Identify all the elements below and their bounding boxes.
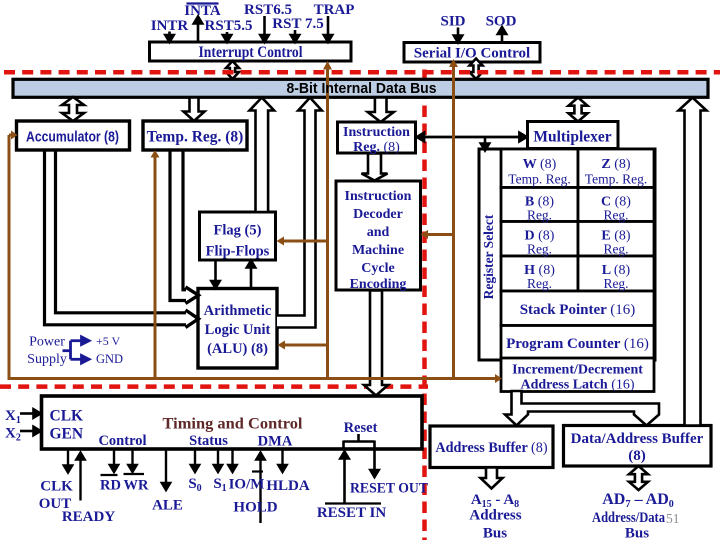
Program Counter box (501, 326, 654, 360)
arrowhead Accumulator channel into ALU (186, 310, 199, 328)
arrow Decoder to Timing and Control (364, 291, 388, 396)
red dashed highlight line vertical (422, 70, 427, 540)
wire HLDA (278, 450, 286, 473)
svg-text:Reg.: Reg. (527, 242, 552, 257)
svg-text:Multiplexer: Multiplexer (533, 129, 611, 146)
arrow Data/Address Buffer to bus (679, 98, 707, 426)
svg-text:Address Latch (16): Address Latch (16) (520, 378, 634, 393)
register cell H (501, 256, 578, 291)
register cell D (501, 222, 578, 257)
svg-text:ALE: ALE (152, 498, 183, 514)
Stack Pointer box (501, 291, 654, 326)
Flag flip-flops box (200, 212, 276, 260)
8-bit internal data bus bar (13, 79, 708, 97)
double arrow bus to Accumulator (62, 97, 84, 121)
arrow Address Buffer to address bus (481, 468, 503, 489)
svg-text:INTR: INTR (151, 18, 189, 34)
arrow bus to Instruction Reg (368, 98, 394, 123)
svg-text:Z (8): Z (8) (601, 157, 631, 172)
Instruction Decoder box (336, 181, 421, 290)
wire Temp Reg to ALU (outer) (170, 151, 186, 301)
Temp Reg box (143, 121, 247, 150)
svg-text:X1: X1 (5, 408, 21, 426)
wire X2 input (20, 427, 41, 435)
double arrow Interrupt Control to bus (226, 61, 239, 79)
svg-text:Machine: Machine (352, 243, 404, 258)
INTA overline (187, 2, 219, 4)
svg-text:(8): (8) (628, 448, 646, 464)
svg-text:Flag (5): Flag (5) (214, 223, 262, 239)
wire ALE (162, 450, 170, 491)
svg-text:S1: S1 (213, 476, 226, 494)
Instruction Reg box (338, 122, 416, 153)
svg-text:RESET OUT: RESET OUT (350, 481, 428, 497)
svg-text:Reg.: Reg. (603, 242, 628, 257)
brown wire left vertical to Accumulator (9, 131, 18, 379)
wire RST5.5 arrow (223, 32, 231, 42)
svg-text:Serial I/O Control: Serial I/O Control (414, 46, 530, 62)
svg-text:and: and (367, 225, 390, 240)
Accumulator box (17, 121, 130, 150)
register cell W (501, 149, 578, 188)
arrow bus to Temp Reg (184, 98, 205, 122)
svg-text:+5 V: +5 V (96, 334, 121, 348)
brown wire vertical to Serial I/O Control (449, 59, 458, 379)
svg-text:Register Select: Register Select (481, 214, 496, 299)
svg-text:Arithmetic: Arithmetic (204, 303, 272, 319)
svg-text:Temp. Reg.: Temp. Reg. (585, 172, 647, 187)
arrow Flag flip-flops to bus (250, 98, 275, 213)
RESET IN overline (325, 502, 381, 504)
brown wire branch to Flag flip-flops (277, 237, 328, 246)
power supply bracket (63, 337, 90, 363)
brown wire branch to Instruction Decoder (421, 230, 454, 239)
wire RST6.5 arrow (260, 16, 268, 42)
wire RD (110, 450, 118, 473)
red dashed highlight line bottom (0, 384, 428, 389)
wire register select branch down (481, 137, 489, 151)
svg-text:Instruction: Instruction (343, 125, 410, 140)
Address Buffer box (430, 426, 553, 468)
double arrow bus to Multiplexer (569, 98, 588, 122)
wire S1 (214, 450, 222, 473)
red dashed highlight line top (4, 70, 720, 75)
svg-text:Status: Status (189, 433, 228, 449)
register cell C (578, 188, 654, 222)
register cell L (578, 256, 654, 291)
register cell B (501, 188, 578, 222)
svg-text:TRAP: TRAP (314, 2, 355, 18)
svg-text:HLDA: HLDA (266, 478, 310, 494)
Register select outer box (479, 149, 655, 360)
wire TRAP arrow (324, 16, 332, 42)
Increment/Decrement Address Latch box (501, 358, 654, 392)
svg-text:Reg.: Reg. (527, 276, 552, 291)
svg-text:Control: Control (98, 433, 146, 449)
wire IO/M (228, 450, 236, 473)
svg-text:WR: WR (124, 478, 150, 494)
Timing and Control box (42, 396, 423, 449)
brown wire branch to ALU (278, 341, 328, 350)
svg-text:Flip-Flops: Flip-Flops (206, 244, 270, 260)
ALU box (198, 289, 277, 369)
svg-text:CLK: CLK (40, 479, 73, 495)
wire RESET IN (up) (340, 452, 348, 504)
svg-text:(ALU) (8): (ALU) (8) (207, 341, 268, 357)
svg-text:Interrupt Control: Interrupt Control (199, 44, 304, 61)
svg-text:S0: S0 (188, 476, 201, 494)
brown wire bottom horizontal to Increment/Decrement latch (8, 374, 503, 383)
svg-text:Bus: Bus (483, 526, 507, 540)
wire SOD arrow (up) (498, 27, 506, 43)
svg-text:Increment/Decrement: Increment/Decrement (512, 363, 643, 378)
svg-text:W (8): W (8) (523, 157, 557, 172)
svg-text:Decoder: Decoder (353, 207, 403, 222)
Serial I/O Control box (404, 43, 540, 63)
wire INTR arrow (165, 32, 173, 43)
svg-text:SID: SID (440, 14, 465, 30)
svg-text:GND: GND (96, 352, 123, 366)
svg-text:READY: READY (62, 509, 116, 525)
svg-text:INTA: INTA (184, 3, 221, 19)
svg-text:HOLD: HOLD (233, 500, 277, 516)
wire Accumulator to ALU (inner) (56, 151, 187, 313)
svg-text:Temp. Reg. (8): Temp. Reg. (8) (147, 129, 244, 146)
svg-text:Logic Unit: Logic Unit (205, 322, 271, 338)
svg-text:RST 7.5: RST 7.5 (272, 16, 323, 32)
wire READY (up) (76, 453, 84, 501)
Data/Address Buffer box (564, 426, 712, 467)
wire CLK OUT (64, 450, 72, 473)
svg-text:Accumulator (8): Accumulator (8) (26, 130, 119, 146)
svg-text:Timing and Control: Timing and Control (163, 416, 304, 433)
svg-text:Address Buffer (8): Address Buffer (8) (435, 440, 547, 456)
svg-text:Bus: Bus (625, 526, 649, 540)
svg-text:RST5.5: RST5.5 (205, 18, 253, 34)
wire Temp Reg to ALU (inner) (183, 151, 186, 290)
double arrow Serial I/O to bus (470, 59, 483, 80)
svg-text:Address: Address (469, 508, 521, 524)
svg-text:Power: Power (29, 335, 65, 350)
svg-text:RD: RD (100, 478, 121, 494)
svg-text:DMA: DMA (258, 434, 293, 450)
arrow ALU to bus (L-shaped) (277, 98, 322, 328)
svg-text:8-Bit Internal Data Bus: 8-Bit Internal Data Bus (287, 80, 437, 97)
Interrupt Control box (150, 42, 352, 61)
svg-text:Cycle: Cycle (361, 261, 394, 276)
svg-text:AD7 – AD0: AD7 – AD0 (602, 491, 674, 510)
svg-text:Reg. (8): Reg. (8) (353, 140, 400, 155)
WR overline (124, 473, 145, 475)
svg-text:Reg.: Reg. (603, 208, 628, 223)
svg-text:Program Counter (16): Program Counter (16) (506, 336, 649, 352)
RD overline (101, 474, 118, 476)
arrow Instruction Reg to Decoder (362, 154, 388, 181)
arrowhead Temp Reg channel into ALU (186, 287, 199, 304)
svg-text:51: 51 (666, 511, 680, 526)
brown wire vertical to Temp Reg (151, 150, 160, 379)
svg-text:CLK: CLK (50, 408, 84, 425)
wire X1 input (20, 409, 41, 417)
svg-text:Reg.: Reg. (527, 208, 552, 223)
svg-text:Instruction: Instruction (345, 189, 412, 204)
wire INTA arrow (up) (194, 17, 202, 43)
wire S0 (191, 450, 199, 473)
svg-text:Encoding: Encoding (350, 277, 407, 292)
svg-text:Reg.: Reg. (603, 276, 628, 291)
wire RESET OUT (370, 441, 378, 478)
IO/M overline (252, 470, 263, 472)
svg-text:RESET IN: RESET IN (317, 505, 387, 521)
svg-text:Address/Data: Address/Data (592, 510, 665, 526)
svg-text:Supply: Supply (27, 352, 67, 367)
wire Instruction Reg to Multiplexer (417, 133, 527, 141)
double arrow below Data/Address Buffer (629, 466, 648, 490)
wire HOLD (up) (256, 453, 264, 524)
svg-text:X2: X2 (5, 426, 21, 444)
wire SID arrow (454, 28, 462, 43)
Multiplexer box (528, 122, 619, 149)
arrow Incr/Decr latch to Address Buffer and Data/Address Buffer (505, 391, 659, 426)
wire RST7.5 arrow (291, 30, 299, 42)
wire ALU to Flag (up) (247, 261, 255, 289)
svg-text:Stack Pointer (16): Stack Pointer (16) (520, 302, 636, 318)
wire WR (128, 450, 136, 473)
wire Accumulator to ALU (outer) (45, 151, 187, 325)
svg-text:IO/M: IO/M (229, 477, 265, 493)
wire Reset bracket (344, 434, 375, 449)
wire Flag to ALU (211, 261, 219, 289)
svg-text:SOD: SOD (486, 14, 517, 30)
svg-text:Reset: Reset (344, 420, 378, 436)
svg-text:GEN: GEN (50, 426, 84, 443)
register cell E (578, 222, 654, 257)
svg-text:Temp. Reg.: Temp. Reg. (508, 172, 570, 187)
svg-text:Data/Address Buffer: Data/Address Buffer (571, 431, 704, 447)
brown wire vertical to Interrupt Control (323, 61, 332, 379)
register cell Z (578, 149, 654, 188)
